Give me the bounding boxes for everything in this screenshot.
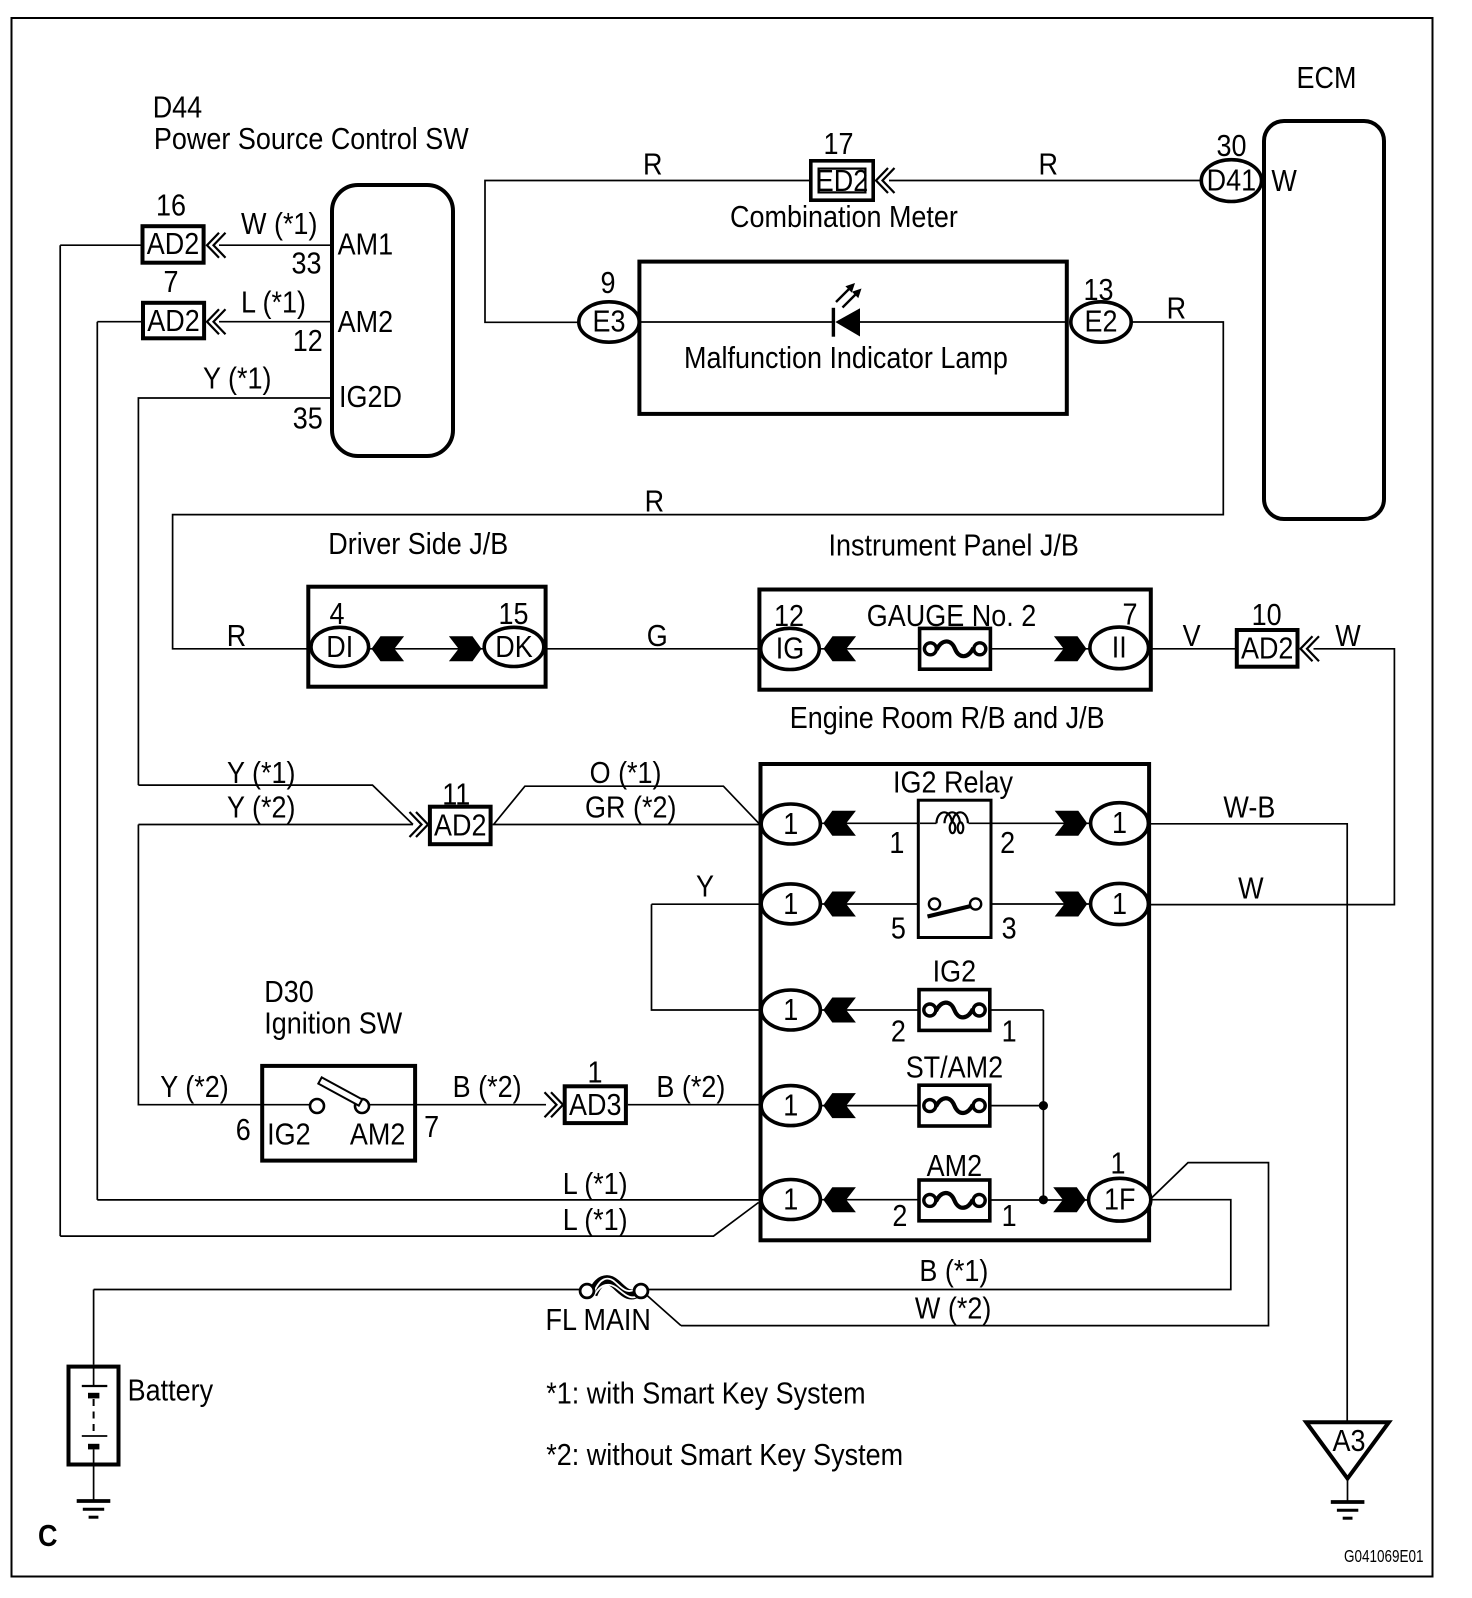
net label W (*1) <box>241 208 317 242</box>
D44 name <box>154 123 470 157</box>
D30 name <box>264 1007 403 1041</box>
relay right oval pin 1 (W-B) <box>1091 803 1149 844</box>
pin 12 label <box>774 600 804 634</box>
svg-text:W: W <box>1271 165 1297 199</box>
pin name AM1 <box>338 228 393 262</box>
AM2 fuse pin 1 <box>1002 1199 1017 1233</box>
page marker C <box>38 1520 57 1554</box>
svg-text:L (*1): L (*1) <box>563 1204 628 1238</box>
net label L (*1) wire 1 <box>563 1168 628 1202</box>
arrow into IG2 fuse row oval <box>823 998 856 1023</box>
fuse AM2 label <box>927 1150 982 1184</box>
Driver Side J/B label <box>328 528 508 562</box>
wire W: AD2(10) to IG2 relay switch output <box>1149 649 1394 905</box>
arrow into AM2 fuse row oval <box>823 1187 856 1212</box>
relay row wires <box>821 823 1090 1200</box>
svg-text:1: 1 <box>889 827 904 861</box>
pin name IG2D <box>339 381 402 415</box>
svg-text:ED2: ED2 <box>816 165 868 199</box>
svg-text:30: 30 <box>1216 130 1246 164</box>
fuse IG2 <box>919 990 990 1031</box>
svg-text:AD2: AD2 <box>147 228 199 262</box>
ignition switch lever <box>318 1077 362 1105</box>
svg-text:GR (*2): GR (*2) <box>585 791 676 825</box>
pin 15 label <box>498 598 528 632</box>
svg-text:B (*1): B (*1) <box>919 1255 988 1289</box>
fusible link FL MAIN <box>580 1279 648 1299</box>
arrow into II <box>1054 636 1087 661</box>
wire R: ED2 to D41 <box>889 180 1200 182</box>
pin 1 label (AD3) <box>587 1056 602 1090</box>
Instrument Panel J/B label <box>829 529 1079 563</box>
svg-text:12: 12 <box>774 600 804 634</box>
D30 pin 7 <box>424 1111 439 1145</box>
wire Y: relay switch to IG2 fuse U-loop <box>652 904 762 1010</box>
connector 1F pin 1 <box>1089 1178 1151 1221</box>
D30 designator <box>264 976 313 1010</box>
connector ECM <box>1264 121 1384 519</box>
svg-text:Y (*2): Y (*2) <box>227 791 295 825</box>
wire: A3 to ground <box>1347 1477 1349 1502</box>
pin number 35 <box>293 402 323 436</box>
wire L(*1) #2: diagonal to AM2 fuse oval <box>60 1203 758 1237</box>
wire B(*1): 1F loop down to FL MAIN <box>649 1200 1231 1290</box>
svg-text:IG2: IG2 <box>933 955 976 989</box>
relay switch <box>928 906 974 917</box>
pin 16 label <box>156 189 186 223</box>
svg-text:ST/AM2: ST/AM2 <box>906 1051 1003 1085</box>
svg-text:R: R <box>1167 292 1186 326</box>
svg-text:AM2: AM2 <box>350 1118 405 1152</box>
relay cavity oval pin 1 (AM2 fuse row) <box>761 1180 820 1220</box>
D30 pin 6 <box>236 1114 251 1148</box>
svg-text:17: 17 <box>823 128 853 162</box>
svg-text:12: 12 <box>293 325 323 359</box>
connector II pin 7 <box>1090 627 1149 669</box>
connector E3 pin 9 <box>579 302 639 342</box>
svg-text:1: 1 <box>783 1183 798 1217</box>
svg-text:W (*1): W (*1) <box>241 208 317 242</box>
svg-text:C: C <box>38 1520 57 1554</box>
wire V: II to AD2(10) <box>1149 648 1236 650</box>
arrow into DI <box>372 636 405 661</box>
net label W (relay out) <box>1238 872 1264 906</box>
svg-text:FL MAIN: FL MAIN <box>546 1304 651 1338</box>
Engine Room R/B and J/B label <box>790 702 1105 736</box>
svg-text:ECM: ECM <box>1297 62 1357 96</box>
D30 Ignition SW box <box>262 1066 415 1161</box>
svg-text:AM2: AM2 <box>927 1150 982 1184</box>
relay pin 5 <box>891 912 906 946</box>
junction connector AD2 pin 11 <box>430 807 491 845</box>
svg-text:AD3: AD3 <box>569 1088 621 1122</box>
net label R (left of ED2) <box>643 148 662 182</box>
arrow out to W-B oval <box>1055 811 1088 836</box>
wire L(*1): AD2(7) to AM2 pin 12, down left side <box>97 322 332 1200</box>
net label R (left of DI) <box>227 620 246 654</box>
wire B(*2): AD3 to ST/AM2 fuse <box>628 1104 761 1106</box>
relay pin 2 <box>1000 827 1015 861</box>
svg-text:R: R <box>227 620 246 654</box>
pin 9 label <box>600 267 615 301</box>
pin 17 label <box>823 128 853 162</box>
IG2 Relay label <box>893 766 1014 800</box>
relay pin 3 <box>1002 912 1017 946</box>
svg-text:1: 1 <box>1112 887 1127 921</box>
battery <box>69 1367 119 1465</box>
svg-text:B (*2): B (*2) <box>656 1071 725 1105</box>
pin number 12 <box>293 325 323 359</box>
svg-text:10: 10 <box>1252 599 1282 633</box>
svg-text:GAUGE No. 2: GAUGE No. 2 <box>867 600 1036 634</box>
svg-text:1F: 1F <box>1104 1183 1135 1217</box>
relay cavity oval pin 1 (ST/AM2 fuse row) <box>761 1086 820 1126</box>
arrow into IG <box>824 636 857 661</box>
wire W-B: relay to A3 ground <box>1148 824 1347 1422</box>
svg-text:IG2: IG2 <box>267 1118 310 1152</box>
pin 10 label <box>1252 599 1282 633</box>
svg-text:Instrument Panel J/B: Instrument Panel J/B <box>829 529 1079 563</box>
net label B (*2) left of AD3 <box>453 1071 522 1105</box>
connector E2 pin 13 <box>1071 302 1131 342</box>
svg-text:*2: without Smart Key System: *2: without Smart Key System <box>546 1439 903 1473</box>
net label B (*2) right of AD3 <box>656 1071 725 1105</box>
svg-text:DK: DK <box>495 630 532 664</box>
Driver Side J/B box <box>308 587 545 687</box>
svg-text:AM2: AM2 <box>338 306 393 340</box>
connector D41 pin 30 <box>1201 160 1261 202</box>
svg-text:Malfunction Indicator Lamp: Malfunction Indicator Lamp <box>684 342 1008 376</box>
connector DI pin 4 <box>311 627 369 666</box>
svg-text:1: 1 <box>1112 807 1127 841</box>
svg-text:1: 1 <box>783 807 798 841</box>
svg-text:1: 1 <box>783 887 798 921</box>
junction connector AD2 pin 10 <box>1237 630 1298 667</box>
net label R (long wire) <box>645 485 664 519</box>
svg-text:2: 2 <box>892 1199 907 1233</box>
svg-text:AD2: AD2 <box>434 809 486 843</box>
ignition switch contacts <box>310 1099 324 1113</box>
arrow out of DK <box>449 636 482 661</box>
net label G <box>647 620 668 654</box>
fuse ST/AM2 <box>919 1085 990 1126</box>
pin 13 label <box>1083 274 1113 308</box>
svg-text:IG2D: IG2D <box>339 381 402 415</box>
fuse ST/AM2 label <box>906 1051 1003 1085</box>
ground symbol (battery) <box>77 1501 111 1517</box>
ground symbol (A3) <box>1331 1502 1365 1518</box>
arrow out to W oval <box>1055 892 1088 917</box>
svg-text:AD2: AD2 <box>1241 632 1293 666</box>
svg-text:6: 6 <box>236 1114 251 1148</box>
junction connector ED2 pin 17 (double box) <box>811 161 873 200</box>
net label Y (*2) at D30 <box>160 1071 228 1105</box>
svg-text:O (*1): O (*1) <box>590 757 662 791</box>
arrow into switch row oval <box>823 892 856 917</box>
wire DI to DK <box>311 648 546 650</box>
connector D44 Power Source Control SW <box>332 185 453 456</box>
svg-text:35: 35 <box>293 402 323 436</box>
pin 30 label <box>1216 130 1246 164</box>
svg-text:B (*2): B (*2) <box>453 1071 522 1105</box>
svg-text:1: 1 <box>783 993 798 1027</box>
svg-text:R: R <box>643 148 662 182</box>
svg-text:W: W <box>1238 872 1264 906</box>
svg-text:E3: E3 <box>592 305 625 339</box>
svg-text:Combination Meter: Combination Meter <box>730 201 958 235</box>
wire inside D30 <box>262 1104 416 1106</box>
svg-text:II: II <box>1112 631 1127 665</box>
svg-text:W (*2): W (*2) <box>915 1292 991 1326</box>
wire O(*1)/GR(*2): AD2(11) to relay coil <box>493 786 761 824</box>
svg-text:Battery: Battery <box>128 1374 214 1408</box>
svg-text:*1: with Smart Key System: *1: with Smart Key System <box>546 1377 865 1411</box>
junction connector AD2 pin 16 <box>143 226 204 263</box>
wire R: E2 down and across to DI <box>173 322 1224 649</box>
junction dot: AM2 fuse to bus <box>1039 1195 1048 1204</box>
relay cavity oval pin 1 (switch row) <box>761 884 820 924</box>
wire: battery to ground <box>93 1464 95 1501</box>
svg-text:R: R <box>645 485 664 519</box>
svg-text:Power Source Control SW: Power Source Control SW <box>154 123 470 157</box>
svg-text:9: 9 <box>600 267 615 301</box>
net label Y (loop) <box>696 870 714 904</box>
wire IG to II <box>761 648 1149 650</box>
AM2 fuse pin 2 <box>892 1199 907 1233</box>
net label Y (*1) <box>203 362 271 396</box>
wire: FL MAIN diagonal <box>646 1295 681 1326</box>
svg-text:2: 2 <box>1000 827 1015 861</box>
net label L (*1) wire 2 <box>563 1204 628 1238</box>
svg-text:4: 4 <box>329 598 344 632</box>
pin 11 label <box>442 778 470 812</box>
svg-text:11: 11 <box>442 778 470 812</box>
LED symbol (MIL bulb) <box>832 283 862 337</box>
D30 terminal AM2 <box>350 1118 405 1152</box>
pin name AM2 <box>338 306 393 340</box>
svg-text:1: 1 <box>783 1089 798 1123</box>
svg-text:E2: E2 <box>1084 305 1117 339</box>
pin 7 label <box>163 266 178 300</box>
svg-text:Y (*1): Y (*1) <box>227 757 295 791</box>
junction dot: ST/AM2 fuse to bus <box>1039 1101 1048 1110</box>
relay pin 1 <box>889 827 904 861</box>
wire L(*1) #1: to AM2 fuse oval <box>97 1199 760 1201</box>
D44 designator <box>153 91 202 125</box>
net label W (*2) <box>915 1292 991 1326</box>
net label W-B <box>1223 791 1275 825</box>
arrow into coil row oval <box>823 811 856 836</box>
wire through MIL <box>641 321 1068 323</box>
svg-text:Ignition SW: Ignition SW <box>264 1007 403 1041</box>
svg-text:IG: IG <box>776 632 804 666</box>
svg-text:33: 33 <box>291 247 321 281</box>
svg-text:16: 16 <box>156 189 186 223</box>
svg-text:3: 3 <box>1002 912 1017 946</box>
svg-text:1: 1 <box>1110 1147 1125 1181</box>
svg-text:AD2: AD2 <box>147 304 199 338</box>
IG2 fuse pin 1 <box>1002 1015 1017 1049</box>
net label GR (*2) <box>585 791 676 825</box>
svg-text:1: 1 <box>1002 1015 1017 1049</box>
net label R (right of E2) <box>1167 292 1186 326</box>
FL MAIN label <box>546 1304 651 1338</box>
IG2 fuse pin 2 <box>891 1015 906 1049</box>
wire W(*2): 1F diagonal loop down to FL MAIN <box>681 1163 1269 1326</box>
wire Y(*1): IG2D pin 35 to AD2(11) <box>138 398 413 825</box>
svg-text:W-B: W-B <box>1223 791 1275 825</box>
wire B(*2): ignition SW pin 7 to AD3 <box>416 1104 546 1106</box>
pin 4 label <box>329 598 344 632</box>
svg-text:15: 15 <box>498 598 528 632</box>
connector IG pin 12 <box>761 628 820 669</box>
svg-text:Y: Y <box>696 870 714 904</box>
junction connector AD2 pin 7 <box>143 303 204 339</box>
note *2 <box>546 1439 903 1473</box>
svg-text:7: 7 <box>424 1111 439 1145</box>
IG2 relay inner box <box>918 800 991 937</box>
svg-text:Y (*2): Y (*2) <box>160 1071 228 1105</box>
net label R (right of ED2) <box>1039 148 1058 182</box>
svg-text:DI: DI <box>326 630 353 664</box>
fuse GAUGE No. 2 label <box>867 600 1036 634</box>
ground connector A3 <box>1306 1422 1389 1478</box>
svg-text:Driver Side J/B: Driver Side J/B <box>328 528 508 562</box>
net label W (right of AD2 10) <box>1335 620 1361 654</box>
junction connector AD3 pin 1 <box>565 1086 626 1123</box>
Malfunction Indicator Lamp box <box>639 262 1066 414</box>
svg-text:G: G <box>647 620 668 654</box>
wire Y(*2): ignition SW to AD2(11) <box>138 825 413 1105</box>
svg-text:1: 1 <box>1002 1199 1017 1233</box>
net label L (*1) <box>241 286 306 320</box>
wire R: ED2 left to E3 via corner <box>485 181 809 323</box>
ECM label <box>1297 62 1357 96</box>
net label W at D41 <box>1271 165 1297 199</box>
figure number <box>1344 1547 1424 1566</box>
net label O (*1) <box>590 757 662 791</box>
Battery label <box>128 1374 214 1408</box>
svg-text:2: 2 <box>891 1015 906 1049</box>
connector DK pin 15 <box>484 627 544 666</box>
pin 7 label (II) <box>1122 598 1137 632</box>
net label Y (*1) at AD2 11 <box>227 757 295 791</box>
svg-text:7: 7 <box>163 266 178 300</box>
arrow into ST/AM2 fuse row oval <box>823 1093 856 1118</box>
arrow out to 1F <box>1053 1187 1086 1212</box>
net label Y (*2) at AD2 11 <box>227 791 295 825</box>
svg-text:A3: A3 <box>1332 1425 1365 1459</box>
svg-text:IG2 Relay: IG2 Relay <box>893 766 1014 800</box>
svg-text:Engine Room R/B and J/B: Engine Room R/B and J/B <box>790 702 1105 736</box>
D30 terminal IG2 <box>267 1118 310 1152</box>
note *1 <box>546 1377 865 1411</box>
svg-text:AM1: AM1 <box>338 228 393 262</box>
svg-text:13: 13 <box>1083 274 1113 308</box>
relay right oval pin 1 (W) <box>1091 883 1149 924</box>
svg-text:G041069E01: G041069E01 <box>1344 1547 1424 1566</box>
fuse AM2 <box>919 1180 990 1221</box>
pin 1 label (1F) <box>1110 1147 1125 1181</box>
wire: battery to FL MAIN <box>94 1290 580 1365</box>
wire W(*1): AD2(16) to AM1 pin 33, down left side to L(*1) branch <box>60 245 332 1236</box>
svg-text:D44: D44 <box>153 91 202 125</box>
net label V <box>1183 620 1202 654</box>
svg-text:Y (*1): Y (*1) <box>203 362 271 396</box>
Engine Room R/B outer box <box>761 764 1150 1240</box>
relay coil <box>937 812 968 833</box>
MIL label <box>684 342 1008 376</box>
Combination Meter label <box>730 201 958 235</box>
svg-text:W: W <box>1335 620 1361 654</box>
svg-text:L (*1): L (*1) <box>241 286 306 320</box>
Instrument Panel J/B box <box>759 590 1150 690</box>
relay cavity oval pin 1 (coil row) <box>761 804 820 844</box>
svg-text:D30: D30 <box>264 976 313 1010</box>
fuse GAUGE No. 2 <box>920 628 991 669</box>
pin number 33 <box>291 247 321 281</box>
svg-text:1: 1 <box>587 1056 602 1090</box>
svg-text:5: 5 <box>891 912 906 946</box>
svg-text:D41: D41 <box>1207 164 1256 198</box>
coil wire stubs <box>920 822 990 824</box>
svg-text:L (*1): L (*1) <box>563 1168 628 1202</box>
wire G: DK to IG <box>544 648 761 650</box>
relay cavity oval pin 1 (IG2 fuse row) <box>761 990 820 1030</box>
svg-text:7: 7 <box>1122 598 1137 632</box>
svg-text:V: V <box>1183 620 1202 654</box>
net label B (*1) <box>919 1255 988 1289</box>
svg-text:R: R <box>1039 148 1058 182</box>
fuse IG2 label <box>933 955 976 989</box>
